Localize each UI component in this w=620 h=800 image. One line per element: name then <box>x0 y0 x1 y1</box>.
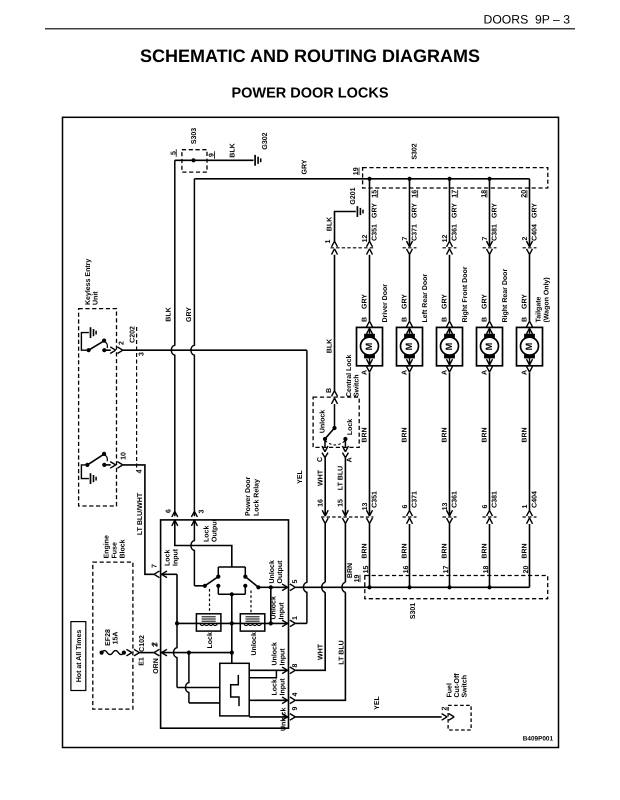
wire LT BLU/WHT keyless lock to relay pin 7 <box>123 465 154 574</box>
connector C351 pin 1 <box>332 241 338 247</box>
svg-text:Input: Input <box>173 548 180 566</box>
relay pin 2 <box>154 649 159 656</box>
svg-text:YEL: YEL <box>374 695 381 709</box>
svg-text:Unit: Unit <box>91 291 99 305</box>
door lock motor M (Right Front Door) <box>447 321 453 327</box>
relay timer output to pin 8 <box>249 669 288 671</box>
splice S301 <box>365 576 548 599</box>
central lock switch B terminal <box>332 391 338 397</box>
splice S302 junction 16 <box>407 177 411 181</box>
svg-text:C361: C361 <box>451 491 458 508</box>
svg-text:POWER DOOR LOCKS: POWER DOOR LOCKS <box>231 85 388 101</box>
relay linkage unlock coil <box>250 591 252 614</box>
svg-text:GRY: GRY <box>452 203 459 218</box>
engine fuse block <box>93 562 133 709</box>
svg-text:G302: G302 <box>262 132 269 149</box>
svg-text:C371: C371 <box>411 224 418 241</box>
wire WHT switch C to C351 pin 16 <box>324 458 326 516</box>
relay timer output to pin 9 <box>249 716 288 718</box>
svg-text:Right Rear Door: Right Rear Door <box>501 269 509 323</box>
wire BRN C404 to splice S301 pin 20 <box>529 524 531 587</box>
connector C351 pin 13 <box>321 516 374 518</box>
wire BLK relay pin 6 to splice S303 <box>171 160 174 516</box>
hot at all times tag <box>71 622 86 691</box>
svg-text:Engine: Engine <box>103 535 111 558</box>
splice S301 junction 16 <box>407 585 411 589</box>
svg-text:A: A <box>402 370 409 375</box>
wire GRY S302 pin 17 to C361 <box>449 179 451 241</box>
svg-text:6: 6 <box>402 504 409 508</box>
terminal E1 / connector C102 <box>126 649 131 656</box>
svg-text:12: 12 <box>442 235 449 243</box>
relay internal wire pin 6 to contact bridge <box>175 521 232 567</box>
wire GRY relay pin 3 to splice S302 <box>191 179 194 516</box>
svg-text:WHT: WHT <box>318 643 325 660</box>
svg-text:Lock Relay: Lock Relay <box>253 479 261 516</box>
wire YEL keyless unlock to relay pin 1 <box>123 349 307 351</box>
relay timer output to pin 4 <box>249 699 288 701</box>
svg-text:C404: C404 <box>531 491 538 508</box>
svg-text:A: A <box>346 457 353 462</box>
svg-text:2: 2 <box>522 236 529 240</box>
svg-text:Lock: Lock <box>206 632 214 648</box>
svg-text:Lock: Lock <box>346 419 354 435</box>
connector C404 pin 1 <box>523 516 537 518</box>
svg-text:2: 2 <box>119 341 126 345</box>
wire LT BLU C351 pin 15 to relay pin 4 <box>344 524 346 583</box>
svg-text:Driver Door: Driver Door <box>381 284 389 323</box>
svg-text:Hot at All Times: Hot at All Times <box>75 630 83 683</box>
connector C351 pin 15 <box>342 510 348 516</box>
svg-text:B: B <box>522 317 529 322</box>
svg-text:EF28: EF28 <box>105 629 112 646</box>
relay internal wire pin 2 to coils and timer <box>161 652 232 654</box>
svg-text:BLK: BLK <box>165 307 172 321</box>
relay pin 3 <box>191 511 197 517</box>
svg-text:Unlock: Unlock <box>268 560 276 583</box>
relay linkage lock coil <box>209 589 211 614</box>
fuse EF28 15A <box>100 651 104 655</box>
wire ORN C102 to relay pin 2 <box>139 652 154 654</box>
svg-text:13: 13 <box>362 503 369 511</box>
svg-text:Keyless Entry: Keyless Entry <box>84 259 92 305</box>
connector C361 pin 12 <box>443 247 457 249</box>
svg-text:BRN: BRN <box>442 427 449 442</box>
keyless unlock switch <box>87 348 91 352</box>
relay internal wire pin 7 to timer <box>161 573 177 575</box>
svg-text:C371: C371 <box>411 491 418 508</box>
svg-text:(Wagon Only): (Wagon Only) <box>543 277 551 322</box>
connector C381 pin 7 <box>483 247 497 249</box>
relay unlock coil <box>240 614 264 631</box>
svg-text:C351: C351 <box>371 224 378 241</box>
svg-text:S303: S303 <box>191 128 198 144</box>
svg-text:S302: S302 <box>412 143 419 159</box>
svg-text:BRN: BRN <box>347 563 354 578</box>
wire BRN C371 to splice S301 pin 16 <box>409 524 411 587</box>
svg-text:B: B <box>402 317 409 322</box>
svg-text:Block: Block <box>119 539 127 558</box>
svg-text:GRY: GRY <box>412 203 419 218</box>
svg-text:10: 10 <box>121 452 128 460</box>
svg-text:G201: G201 <box>350 187 357 204</box>
svg-text:BRN: BRN <box>362 427 369 442</box>
svg-text:Fuel: Fuel <box>446 683 454 697</box>
svg-text:LT BLU/WHT: LT BLU/WHT <box>136 492 144 535</box>
svg-text:A: A <box>362 370 369 375</box>
svg-text:GRY: GRY <box>522 294 529 309</box>
svg-text:GRY: GRY <box>402 294 409 309</box>
connector C381 pin 6 <box>483 516 497 518</box>
wire GRY S302 pin 15 to C351 <box>369 179 371 241</box>
splice S302 junction 18 <box>487 177 491 181</box>
svg-text:B: B <box>482 317 489 322</box>
svg-text:Lock: Lock <box>271 679 279 695</box>
wire BRN C381 to splice S301 pin 18 <box>489 524 491 587</box>
svg-text:Input: Input <box>280 678 287 696</box>
svg-text:C351: C351 <box>371 491 378 508</box>
relay pin 4 (Lock Input) <box>282 697 288 704</box>
wire GRY S302 pin 20 to C404 <box>529 179 531 247</box>
svg-text:BRN: BRN <box>442 543 449 558</box>
keyless entry unit <box>79 309 117 506</box>
svg-text:5: 5 <box>292 579 299 583</box>
connector C371 pin 7 <box>403 247 417 249</box>
relay lock coil <box>196 614 221 631</box>
wire BRN C351 to splice S301 pin 15 <box>369 524 371 588</box>
wire pin 5 to splice S301 pin 19 <box>295 586 369 588</box>
svg-text:16: 16 <box>318 499 325 507</box>
svg-text:A: A <box>442 370 449 375</box>
svg-text:M: M <box>364 342 374 350</box>
fuel cut-off switch <box>448 705 471 730</box>
svg-text:A: A <box>482 370 489 375</box>
svg-text:M: M <box>444 342 454 350</box>
svg-text:Central Lock: Central Lock <box>345 354 353 397</box>
svg-text:Lock: Lock <box>203 526 211 542</box>
keyless lock switch <box>85 463 89 467</box>
svg-text:2: 2 <box>151 642 158 646</box>
ground G302 <box>254 155 256 166</box>
svg-text:Fuse: Fuse <box>112 542 119 558</box>
relay timer <box>220 663 249 716</box>
relay pin 1 (Unlock Input) <box>282 620 288 627</box>
svg-text:C102: C102 <box>139 635 146 652</box>
svg-text:Output: Output <box>277 560 284 584</box>
svg-text:BRN: BRN <box>482 543 489 558</box>
splice S301 bus wire <box>370 586 530 588</box>
connector C404 pin 2 <box>523 247 537 249</box>
svg-text:Tailgate: Tailgate <box>535 296 543 322</box>
splice S302 bus wire <box>370 178 530 180</box>
svg-text:BRN: BRN <box>522 427 529 442</box>
wire keyless lock output <box>104 464 110 466</box>
svg-text:M: M <box>524 342 534 350</box>
svg-text:GRY: GRY <box>186 307 193 322</box>
wire GRY C361 to door motor B <box>449 255 451 321</box>
svg-text:WHT: WHT <box>317 469 324 486</box>
wire BRN C361 to splice S301 pin 17 <box>449 524 451 588</box>
svg-text:C: C <box>317 457 324 462</box>
central lock switch A terminal <box>344 439 346 447</box>
splice S301 junction 18 <box>487 585 491 589</box>
svg-text:GRY: GRY <box>482 294 489 309</box>
svg-text:DOORS 9P – 3: DOORS 9P – 3 <box>484 13 571 27</box>
svg-text:BLK: BLK <box>327 339 334 353</box>
svg-text:Right Front Door: Right Front Door <box>461 266 469 322</box>
wire GRY S302 pin 16 to C371 <box>409 179 411 247</box>
svg-text:B: B <box>362 317 369 322</box>
wire keyless unlock output <box>104 349 110 351</box>
connector C361 pin 13 <box>443 516 457 518</box>
svg-text:M: M <box>484 342 494 350</box>
svg-text:Input: Input <box>279 602 286 620</box>
wire GRY C351 to door motor B <box>369 255 371 321</box>
connector C371 pin 6 <box>403 516 417 518</box>
svg-text:4: 4 <box>292 692 299 696</box>
svg-text:1: 1 <box>292 616 299 620</box>
relay internal wire junction to timer lower input <box>185 653 188 703</box>
svg-text:GRY: GRY <box>372 203 379 218</box>
svg-text:6: 6 <box>166 509 173 513</box>
svg-text:ORN: ORN <box>153 658 160 674</box>
svg-text:7: 7 <box>482 236 489 240</box>
svg-text:1: 1 <box>325 239 332 243</box>
svg-text:C381: C381 <box>491 491 498 508</box>
svg-text:Unlock: Unlock <box>319 410 327 433</box>
svg-text:Power Door: Power Door <box>245 476 252 516</box>
relay pin 9 (Unlock) <box>282 714 288 721</box>
svg-text:13: 13 <box>442 503 449 511</box>
svg-text:12: 12 <box>362 235 369 243</box>
svg-text:6: 6 <box>482 504 489 508</box>
svg-text:GRY: GRY <box>302 159 309 174</box>
svg-text:C361: C361 <box>451 224 458 241</box>
splice S303 junction <box>191 158 195 162</box>
svg-text:B: B <box>442 317 449 322</box>
door lock motor M (Right Rear Door) <box>487 321 493 327</box>
wire WHT C351 pin 16 to relay pin 8 <box>324 524 326 583</box>
wire YEL relay pin 9 to fuel cut-off switch <box>295 716 441 718</box>
svg-text:Switch: Switch <box>352 374 360 397</box>
svg-text:C404: C404 <box>531 224 538 241</box>
svg-text:Unlock: Unlock <box>271 642 279 665</box>
svg-text:LT BLU: LT BLU <box>339 640 346 664</box>
wire BLK S303 pin 9 to ground G302 <box>194 159 254 161</box>
connector C202 pins 2/3 <box>136 327 138 471</box>
svg-text:BLK: BLK <box>230 143 237 157</box>
svg-text:GRY: GRY <box>492 203 499 218</box>
svg-text:Unlock: Unlock <box>280 708 288 731</box>
wire GRY C381 to door motor B <box>489 254 491 321</box>
svg-text:B: B <box>326 388 333 393</box>
ground G201 <box>356 206 358 217</box>
splice S303 <box>182 150 207 172</box>
relay pin 7 (Lock Input) <box>154 571 159 578</box>
svg-text:C202: C202 <box>129 326 136 343</box>
svg-text:SCHEMATIC AND ROUTING DIAGRAMS: SCHEMATIC AND ROUTING DIAGRAMS <box>140 46 480 66</box>
connector C351 pin 16 <box>322 510 328 516</box>
central lock switch C terminal <box>324 439 326 447</box>
relay pin 6 <box>172 511 178 517</box>
splice S302 <box>363 168 548 188</box>
svg-text:15A: 15A <box>113 632 120 645</box>
svg-text:Cut-Off: Cut-Off <box>453 673 461 698</box>
svg-text:Left Rear Door: Left Rear Door <box>421 274 429 323</box>
keyless lock switch ground <box>81 465 89 479</box>
svg-text:C381: C381 <box>491 224 498 241</box>
central lock switch armature <box>334 404 336 428</box>
connector C351 pin 12 <box>331 247 375 249</box>
wire GRY C404 to door motor B <box>529 254 531 321</box>
svg-text:7: 7 <box>151 564 158 568</box>
svg-text:BRN: BRN <box>522 543 529 558</box>
svg-text:3: 3 <box>139 352 146 356</box>
svg-text:Output: Output <box>212 518 219 542</box>
svg-text:Input: Input <box>280 648 287 666</box>
svg-text:7: 7 <box>402 236 409 240</box>
svg-text:Lock: Lock <box>164 550 172 566</box>
splice S302 junction 17 <box>447 177 451 181</box>
svg-text:GRY: GRY <box>362 294 369 309</box>
wire GRY S302 pin 18 to C381 <box>489 179 491 247</box>
svg-text:GRY: GRY <box>532 203 539 218</box>
svg-text:A: A <box>522 370 529 375</box>
wire BLK G201 to connector C351 pin 1 <box>335 212 356 242</box>
svg-text:BRN: BRN <box>482 427 489 442</box>
wire BLK C351 pin 1 to central lock switch B <box>334 255 336 391</box>
svg-text:BRN: BRN <box>402 427 409 442</box>
svg-text:15: 15 <box>338 499 345 507</box>
svg-text:9: 9 <box>292 706 299 710</box>
svg-text:BLK: BLK <box>327 217 334 231</box>
splice S301 junction 17 <box>447 585 451 589</box>
svg-text:LT BLU: LT BLU <box>338 466 345 490</box>
wire LT BLU switch A to C351 pin 15 <box>344 458 346 516</box>
splice S302 junction 15 <box>367 177 371 181</box>
svg-text:Switch: Switch <box>461 675 469 698</box>
svg-text:4: 4 <box>137 469 144 473</box>
svg-text:M: M <box>404 342 414 350</box>
svg-text:S301: S301 <box>410 603 417 619</box>
relay internal wire pin 3 to lock contact <box>191 521 194 586</box>
svg-text:B409P001: B409P001 <box>523 736 554 743</box>
power door lock relay U1 <box>161 520 289 728</box>
splice S301 junction 15 <box>367 585 371 589</box>
svg-text:BRN: BRN <box>362 543 369 558</box>
svg-text:8: 8 <box>292 663 299 667</box>
svg-text:Unlock: Unlock <box>250 632 258 655</box>
relay wire bridge common to coils and pin 2 <box>231 594 233 623</box>
svg-text:BRN: BRN <box>402 543 409 558</box>
wire GRY C371 to door motor B <box>409 254 411 321</box>
relay pin 8 (Unlock Input) <box>282 667 288 674</box>
svg-text:YEL: YEL <box>297 469 304 483</box>
door lock motor M (Tailgate) <box>527 321 533 327</box>
svg-text:3: 3 <box>198 509 205 513</box>
relay coil common wire to pin 1 <box>177 622 232 624</box>
svg-text:1: 1 <box>522 504 529 508</box>
central lock switch <box>313 397 359 447</box>
door lock motor M (Driver Door) <box>367 321 373 327</box>
keyless unlock switch ground <box>81 333 89 351</box>
door lock motor M (Left Rear Door) <box>407 321 413 327</box>
relay wire unlock coil to unlock contact <box>270 587 272 623</box>
relay contact bridge <box>218 566 245 568</box>
relay pin 5 (Unlock Output) <box>282 584 288 591</box>
relay wire unlock contact to pin 5 <box>258 586 288 588</box>
svg-text:GRY: GRY <box>442 294 449 309</box>
svg-text:E1: E1 <box>139 657 146 666</box>
